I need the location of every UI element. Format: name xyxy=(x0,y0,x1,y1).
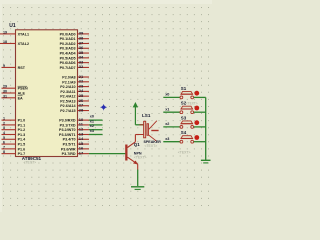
pin P0.1/AD1 (38) of U1 xyxy=(60,35,89,41)
value label AT89C51 xyxy=(22,156,42,161)
svg-text:S1: S1 xyxy=(181,86,187,91)
placeholder text under Q1 xyxy=(134,156,147,160)
push button S1 xyxy=(180,91,194,98)
node label x2 at U1 side xyxy=(90,124,94,128)
wire S4 to right bus xyxy=(194,141,206,143)
svg-text:S4: S4 xyxy=(181,130,187,135)
pin P3.2/INT0 (12) of U1 xyxy=(59,127,89,133)
label LS1 xyxy=(142,113,151,118)
origin marker (blue diamond) xyxy=(100,104,106,110)
svg-text:x2: x2 xyxy=(90,124,94,128)
pin P1.4 (5) of U1 xyxy=(2,136,27,142)
svg-text:30: 30 xyxy=(3,90,7,94)
wire VCC to LS1 pin 1 xyxy=(135,124,143,126)
label S4 xyxy=(181,130,187,135)
speaker LS1 xyxy=(140,121,159,142)
pin P3.5/T1 (15) of U1 xyxy=(63,141,89,147)
svg-text:x3: x3 xyxy=(165,137,169,141)
pin P2.1/A9 (22) of U1 xyxy=(62,79,89,85)
svg-text:31: 31 xyxy=(3,94,7,98)
svg-text:x0: x0 xyxy=(90,115,94,119)
IC U1 AT89C51 body xyxy=(16,30,78,157)
value label NPN xyxy=(134,151,142,155)
svg-text:P0.5/AD5: P0.5/AD5 xyxy=(60,56,76,60)
svg-text:x2: x2 xyxy=(165,122,169,126)
svg-text:P0.4/AD4: P0.4/AD4 xyxy=(60,52,77,56)
pin PSEN (29) of U1 xyxy=(2,85,28,91)
wire net x1 stub from U1 P3.1 xyxy=(89,124,103,126)
node label x1 at S2 side xyxy=(165,107,169,111)
pin P1.7 (8) of U1 xyxy=(2,150,26,156)
red state dot at S2 xyxy=(194,106,199,111)
pin P0.5/AD5 (34) of U1 xyxy=(60,55,89,61)
svg-text:P2.4/A12: P2.4/A12 xyxy=(60,95,75,99)
svg-text:x1: x1 xyxy=(90,119,94,123)
svg-text:<TEXT>: <TEXT> xyxy=(186,102,198,106)
pin P1.6 (7) of U1 xyxy=(2,145,26,151)
pin P1.1 (2) of U1 xyxy=(2,121,26,127)
pin P3.1/TXD (11) of U1 xyxy=(60,122,89,128)
pin XTAL2 (18) of U1 xyxy=(0,40,29,46)
wire Q1 emitter to ground xyxy=(137,170,139,187)
svg-text:8: 8 xyxy=(3,150,5,154)
power supply arrow (VCC) xyxy=(133,102,138,125)
placeholder text right of S2 xyxy=(186,102,198,106)
node label x3 at S4 side xyxy=(165,137,169,141)
svg-text:P0.6/AD6: P0.6/AD6 xyxy=(60,61,76,65)
svg-text:S3: S3 xyxy=(181,115,187,120)
svg-text:P3.4/T0: P3.4/T0 xyxy=(63,138,76,142)
pin P1.2 (3) of U1 xyxy=(2,126,26,132)
node label x3 at U1 side xyxy=(90,129,94,133)
svg-text:x1: x1 xyxy=(165,107,169,111)
placeholder text under U1 xyxy=(24,161,37,165)
svg-text:P2.5/A13: P2.5/A13 xyxy=(60,99,75,103)
pin XTAL1 (19) of U1 xyxy=(0,30,29,36)
svg-text:7: 7 xyxy=(3,145,5,149)
label Q1 xyxy=(134,142,140,147)
svg-text:28: 28 xyxy=(79,107,84,112)
svg-text:P1.4: P1.4 xyxy=(18,138,27,142)
pin P2.3/A11 (24) of U1 xyxy=(60,88,89,94)
pin RST (9) of U1 xyxy=(2,64,26,70)
node label x2 at S3 side xyxy=(165,122,169,126)
wire P3.7 to Q1 base xyxy=(89,153,125,155)
svg-text:EA: EA xyxy=(18,96,23,100)
svg-text:P2.6/A14: P2.6/A14 xyxy=(60,104,76,108)
wire S1 to right bus xyxy=(194,96,206,98)
value label SPEAKER xyxy=(144,140,162,144)
ground under Q1 xyxy=(131,187,144,190)
pin P0.4/AD4 (35) of U1 xyxy=(60,50,89,56)
pin P2.7/A15 (28) of U1 xyxy=(60,107,89,113)
wire right bus of buttons xyxy=(205,97,207,160)
svg-text:<TEXT>: <TEXT> xyxy=(145,144,158,148)
svg-text:6: 6 xyxy=(3,141,5,145)
svg-text:<TEXT>: <TEXT> xyxy=(134,156,147,160)
svg-text:1: 1 xyxy=(3,117,5,121)
transistor Q1 NPN xyxy=(125,135,139,170)
svg-text:P1.6: P1.6 xyxy=(18,147,26,151)
svg-text:P3.0/RXD: P3.0/RXD xyxy=(59,119,76,123)
placeholder text under LS1 xyxy=(145,144,158,148)
svg-text:x3: x3 xyxy=(90,129,94,133)
svg-text:P3.5/T1: P3.5/T1 xyxy=(63,143,76,147)
pin P3.0/RXD (10) of U1 xyxy=(59,117,89,123)
wire net x3 to S4 xyxy=(163,141,180,143)
svg-text:<TEXT>: <TEXT> xyxy=(178,151,191,155)
pin P3.4/T0 (14) of U1 xyxy=(63,136,89,142)
svg-text:P3.2/INT0: P3.2/INT0 xyxy=(59,128,76,132)
svg-text:32: 32 xyxy=(79,64,84,69)
svg-text:RST: RST xyxy=(18,66,26,70)
red state dot at S4 xyxy=(194,135,199,140)
red state dot at S3 xyxy=(194,120,199,125)
svg-text:P0.0/AD0: P0.0/AD0 xyxy=(60,32,76,36)
pin P2.6/A14 (27) of U1 xyxy=(60,103,89,109)
pin P1.3 (4) of U1 xyxy=(2,131,26,137)
svg-text:U1: U1 xyxy=(9,23,16,29)
pin EA (31) of U1 xyxy=(2,94,24,100)
pin P0.2/AD2 (37) of U1 xyxy=(60,40,89,46)
svg-text:P0.2/AD2: P0.2/AD2 xyxy=(60,42,76,46)
node label x1 at U1 side xyxy=(90,119,94,123)
pin P0.7/AD7 (32) of U1 xyxy=(60,64,89,70)
ground at right bus xyxy=(201,160,211,163)
svg-text:<TEXT>: <TEXT> xyxy=(24,161,37,165)
svg-text:19: 19 xyxy=(3,30,7,34)
svg-text:P3.1/TXD: P3.1/TXD xyxy=(60,123,76,127)
label S2 xyxy=(181,101,187,106)
svg-text:P2.7/A15: P2.7/A15 xyxy=(60,109,75,113)
svg-text:P2.1/A9: P2.1/A9 xyxy=(62,80,75,84)
svg-text:4: 4 xyxy=(3,131,5,135)
pin P1.5 (6) of U1 xyxy=(2,141,26,147)
svg-text:XTAL2: XTAL2 xyxy=(18,42,29,46)
svg-text:ALE: ALE xyxy=(18,91,26,95)
svg-text:P1.1: P1.1 xyxy=(18,123,26,127)
pin P3.3/INT1 (13) of U1 xyxy=(59,131,89,137)
pin P0.6/AD6 (33) of U1 xyxy=(60,59,89,65)
svg-text:P0.1/AD1: P0.1/AD1 xyxy=(60,37,76,41)
label S1 xyxy=(181,86,187,91)
pin P0.3/AD3 (36) of U1 xyxy=(60,45,89,51)
pin P2.5/A13 (26) of U1 xyxy=(60,98,89,104)
push button S4 xyxy=(180,136,194,143)
pin P3.7/RD (17) of U1 xyxy=(62,150,89,156)
svg-text:17: 17 xyxy=(79,150,84,155)
node label x0 at S1 side xyxy=(165,93,169,97)
pin P3.6/WR (16) of U1 xyxy=(61,146,89,152)
svg-text:5: 5 xyxy=(3,136,5,140)
wire net x2 to S3 xyxy=(163,126,180,128)
label U1 xyxy=(9,23,16,29)
pin P2.4/A12 (25) of U1 xyxy=(60,93,89,99)
svg-text:LS1: LS1 xyxy=(142,113,151,118)
pin P2.2/A10 (23) of U1 xyxy=(60,83,89,89)
svg-text:P3.7/RD: P3.7/RD xyxy=(62,152,76,156)
svg-text:P1.2: P1.2 xyxy=(18,128,26,132)
svg-text:P3.6/WR: P3.6/WR xyxy=(61,147,76,151)
svg-text:PSEN: PSEN xyxy=(18,87,28,91)
red state dot at S1 xyxy=(194,91,199,96)
svg-text:P1.5: P1.5 xyxy=(18,143,26,147)
svg-text:3: 3 xyxy=(3,126,5,130)
wire net x1 to S2 xyxy=(163,111,180,113)
push button S2 xyxy=(180,106,194,113)
push button S3 xyxy=(180,121,194,128)
svg-text:P0.3/AD3: P0.3/AD3 xyxy=(60,47,76,51)
svg-text:x0: x0 xyxy=(165,93,169,97)
svg-text:P2.0/A8: P2.0/A8 xyxy=(62,75,75,79)
svg-text:P0.7/AD7: P0.7/AD7 xyxy=(60,66,76,70)
svg-text:XTAL1: XTAL1 xyxy=(18,32,29,36)
svg-text:P3.3/INT1: P3.3/INT1 xyxy=(59,133,76,137)
svg-text:29: 29 xyxy=(3,85,7,89)
wire net x0 to S1 xyxy=(163,96,180,98)
svg-text:P2.2/A10: P2.2/A10 xyxy=(60,85,75,89)
svg-text:9: 9 xyxy=(3,64,5,68)
pin P1.0 (1) of U1 xyxy=(2,117,26,123)
wire net x0 stub from U1 P3.0 xyxy=(89,119,103,121)
pin P2.0/A8 (21) of U1 xyxy=(62,74,89,80)
label S3 xyxy=(181,115,187,120)
wire net x2 stub from U1 P3.2 xyxy=(89,129,103,131)
placeholder text under S4 xyxy=(178,151,191,155)
svg-text:2: 2 xyxy=(3,121,5,125)
svg-text:P1.3: P1.3 xyxy=(18,133,26,137)
wire S2 to right bus xyxy=(194,111,206,113)
svg-text:18: 18 xyxy=(3,40,7,44)
svg-text:P2.3/A11: P2.3/A11 xyxy=(60,90,75,94)
node label x0 at U1 side xyxy=(90,115,94,119)
svg-text:Q1: Q1 xyxy=(134,142,140,147)
wire S3 to right bus xyxy=(194,126,206,128)
pin P0.0/AD0 (39) of U1 xyxy=(60,31,89,37)
pin ALE (30) of U1 xyxy=(2,90,26,96)
svg-text:P1.0: P1.0 xyxy=(18,119,26,123)
wire net x3 stub from U1 P3.3 xyxy=(89,133,103,135)
